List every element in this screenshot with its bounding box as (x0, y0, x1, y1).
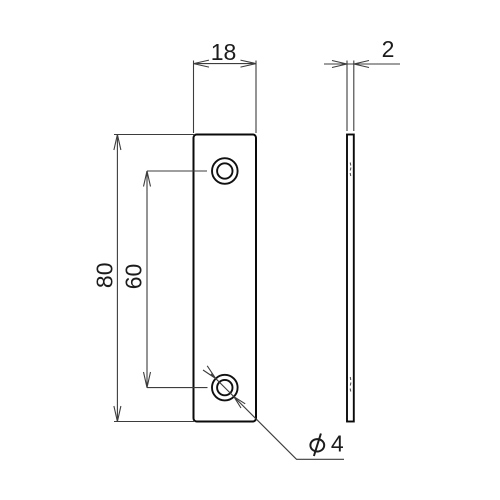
phi symbol slash (314, 434, 321, 457)
hole pitch bottom reference line (147, 387, 208, 389)
side view plate outline (347, 135, 354, 422)
leader arrow upper-left pointing at hole (203, 366, 216, 379)
bottom hole inner circle (217, 380, 232, 395)
thickness arrow right pointing left (354, 61, 369, 68)
width dimension arrow right (241, 60, 257, 67)
hole pitch top reference line (147, 170, 207, 172)
bottom hole outer circle (212, 375, 238, 401)
svg-text:80: 80 (92, 263, 118, 289)
top hole inner circle (217, 163, 232, 178)
height dimension arrow bottom (114, 406, 121, 422)
height dimension extension line bottom (114, 421, 194, 423)
width dimension extension line right (255, 61, 257, 134)
top hole outer circle (212, 158, 238, 184)
thickness dimension line 2 (324, 63, 400, 65)
leader arrow lower-right pointing at hole (234, 397, 245, 408)
svg-text:2: 2 (382, 36, 395, 62)
hole pitch dimension line 60 (146, 171, 148, 388)
plate front view outline (194, 135, 257, 422)
thickness arrow left pointing right (332, 61, 347, 68)
phi symbol ellipse (310, 439, 324, 451)
svg-text:18: 18 (211, 39, 237, 65)
thickness dimension extension line left (346, 61, 348, 132)
thickness dimension extension line right (353, 61, 355, 132)
width dimension line 18 (194, 63, 257, 65)
hole pitch arrow bottom (144, 372, 151, 388)
svg-text:4: 4 (331, 431, 344, 457)
height dimension extension line top (114, 134, 194, 136)
height dimension arrow top (114, 135, 121, 151)
width dimension arrow left (194, 60, 210, 67)
svg-text:60: 60 (121, 264, 147, 290)
hole pitch arrow top (144, 171, 151, 187)
side view hidden hole mark top (349, 163, 352, 177)
height dimension line 80 (116, 135, 118, 422)
side view hidden hole mark bottom (349, 377, 352, 392)
width dimension extension line left (193, 61, 195, 134)
hole diameter leader line diagonal (211, 374, 344, 460)
